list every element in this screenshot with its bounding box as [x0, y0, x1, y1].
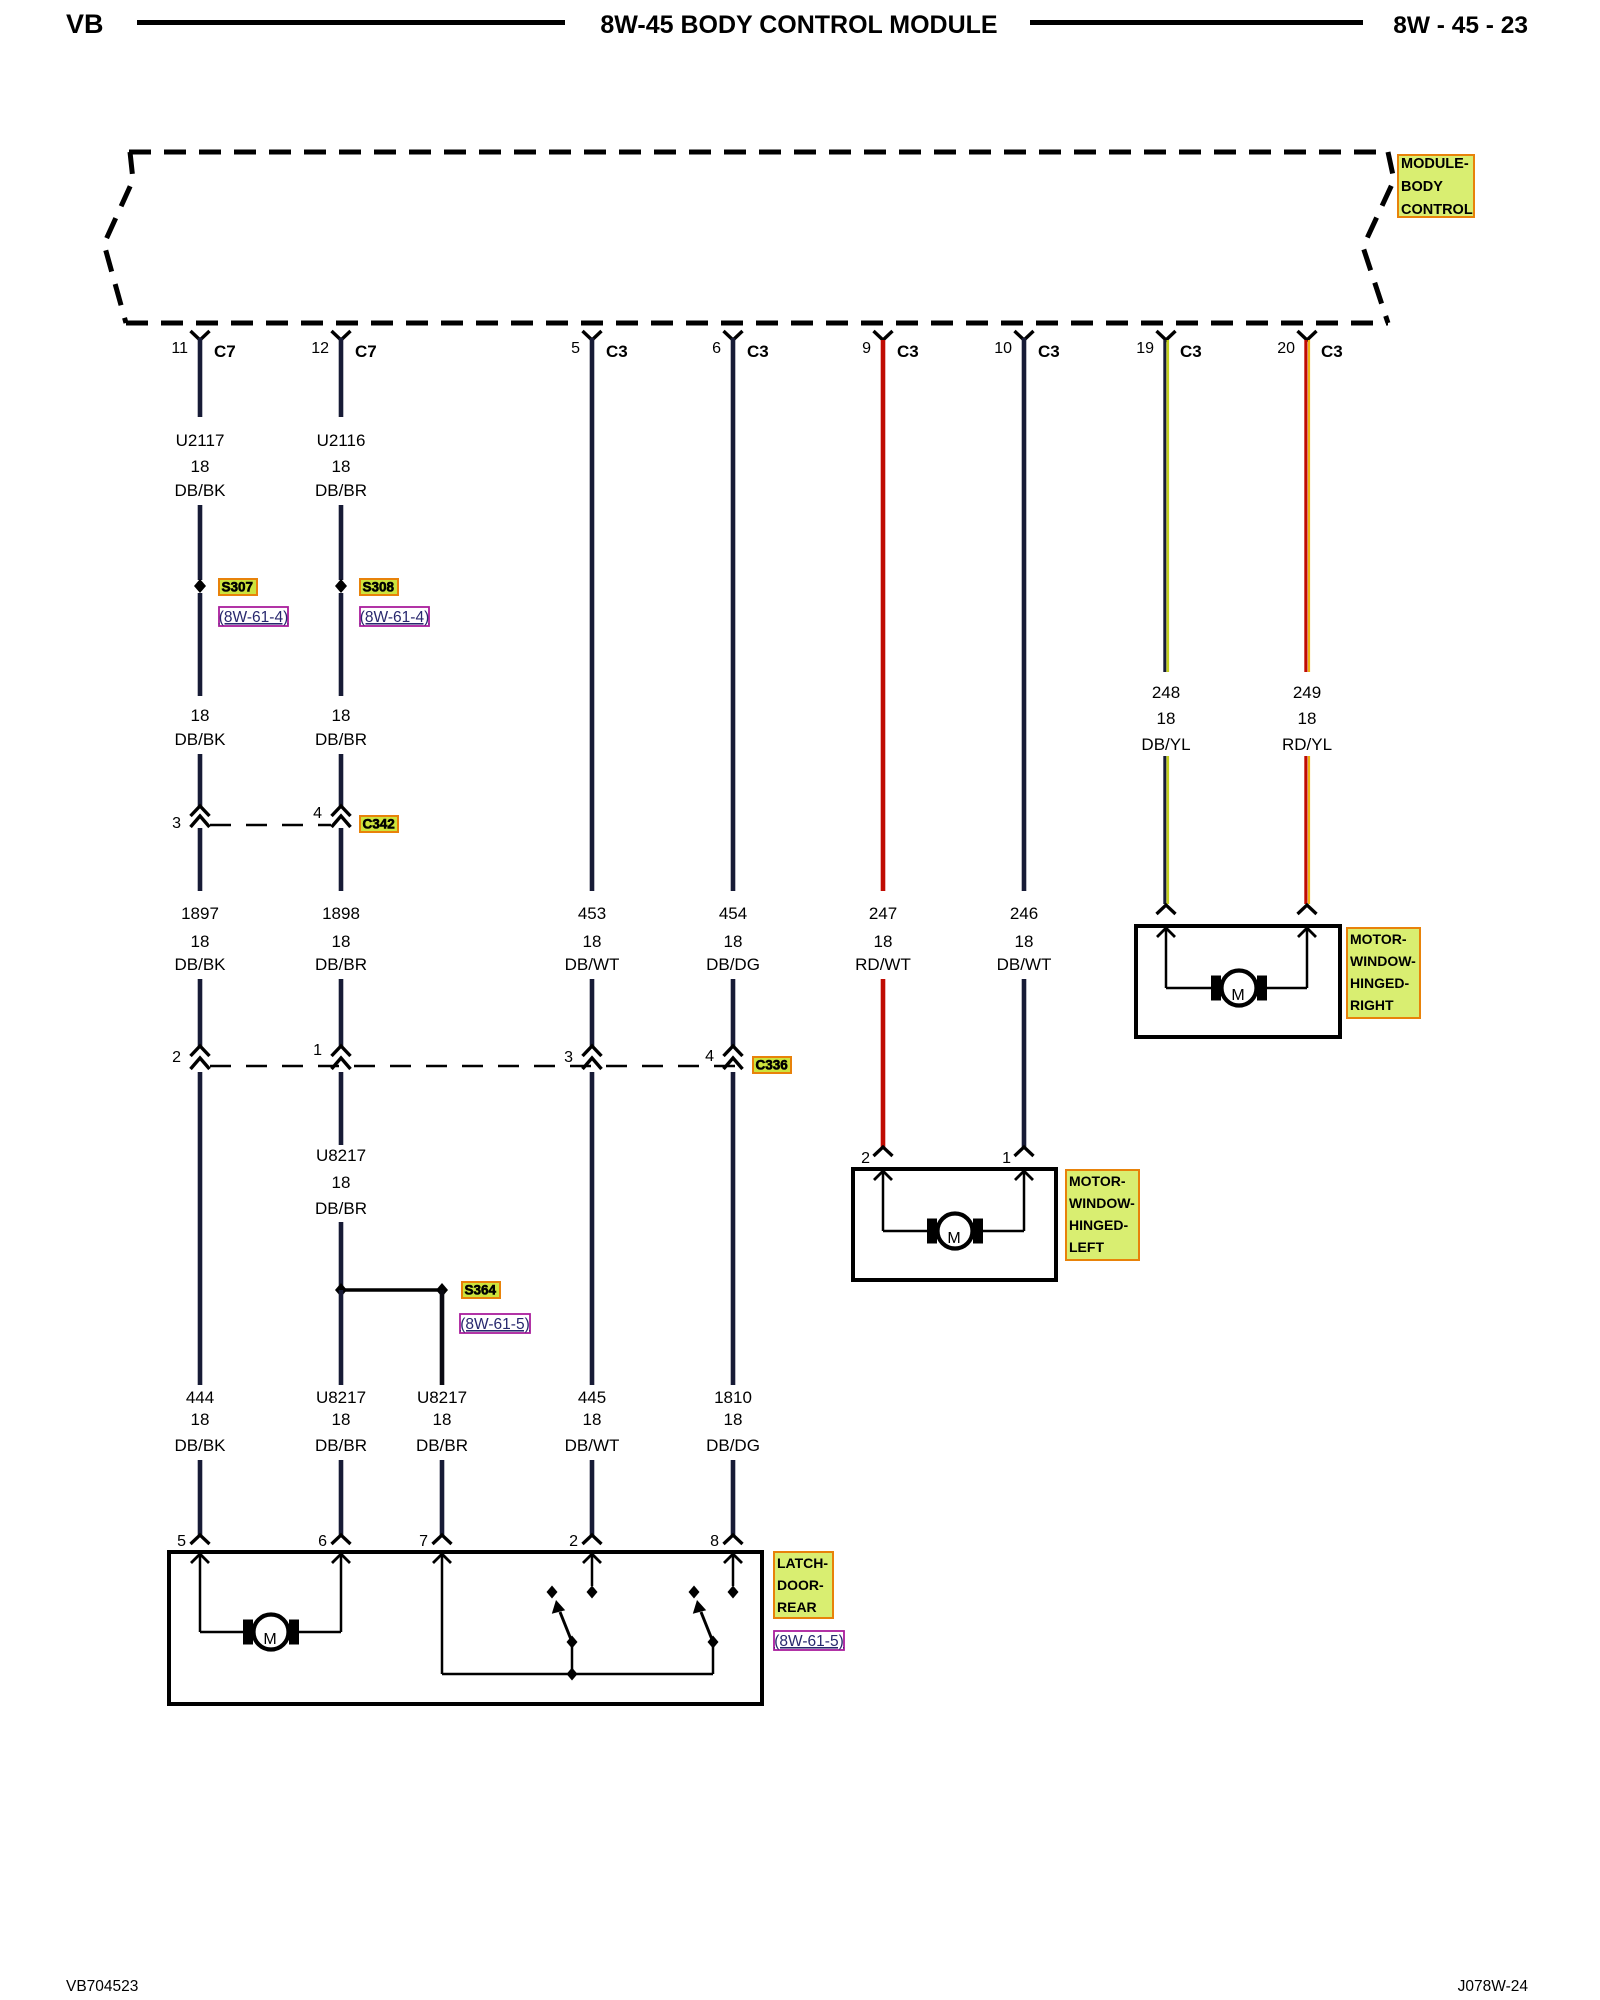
- svg-text:2: 2: [172, 1049, 181, 1066]
- svg-text:C342: C342: [363, 817, 395, 832]
- svg-text:3: 3: [172, 815, 181, 832]
- svg-text:C3: C3: [1321, 342, 1343, 361]
- svg-text:HINGED-: HINGED-: [1069, 1217, 1128, 1233]
- connector C336 pin 4 chevrons: [724, 1046, 743, 1056]
- wire segment to left window motor pin 1: [1022, 979, 1027, 1147]
- svg-text:(8W-61-5): (8W-61-5): [460, 1316, 529, 1333]
- svg-text:S308: S308: [363, 580, 395, 595]
- wire 1898 18 DB/BR segment below C342: [339, 828, 344, 891]
- latch switch SW2 fixed contact: [728, 1586, 739, 1599]
- latch switch SW2 pivot lead: [712, 1642, 715, 1674]
- svg-text:C3: C3: [897, 342, 919, 361]
- latch switch SW1 throw contact: [547, 1586, 558, 1599]
- svg-text:18: 18: [583, 932, 602, 951]
- wire U2116 18 DB/BR segment from module pin 12: [339, 338, 344, 417]
- wire 248 18 DB/YL upper segment from module pin 19: [1163, 340, 1166, 672]
- svg-text:18: 18: [332, 932, 351, 951]
- svg-text:DB/BR: DB/BR: [315, 1436, 367, 1455]
- svg-text:DB/YL: DB/YL: [1141, 735, 1190, 754]
- wire 246 18 DB/WT segment from module pin 10: [1022, 338, 1027, 891]
- svg-text:20: 20: [1277, 340, 1295, 357]
- svg-text:C3: C3: [1038, 342, 1060, 361]
- svg-text:(8W-61-4): (8W-61-4): [219, 609, 288, 626]
- svg-text:M: M: [263, 1631, 276, 1648]
- latch switch SW1 pivot: [567, 1636, 578, 1649]
- svg-text:(8W-61-4): (8W-61-4): [360, 609, 429, 626]
- svg-text:1898: 1898: [322, 904, 360, 923]
- latch pin 5 terminal arrow: [191, 1554, 209, 1563]
- svg-text:U8217: U8217: [316, 1388, 366, 1407]
- svg-text:6: 6: [712, 340, 721, 357]
- label C336: [753, 1057, 791, 1073]
- connector C336 pin 1 chevrons: [332, 1046, 351, 1056]
- svg-text:DB/DG: DB/DG: [706, 1436, 760, 1455]
- svg-text:8: 8: [710, 1533, 719, 1550]
- svg-text:DB/BR: DB/BR: [315, 955, 367, 974]
- left window motor pin 1 entry fork: [1015, 1147, 1034, 1156]
- latch pin 7 terminal arrow: [433, 1554, 451, 1563]
- svg-text:U2116: U2116: [317, 431, 366, 450]
- label S307: [219, 579, 257, 595]
- splice S364 right junction: [436, 1283, 448, 1297]
- wire segment to latch pin 8: [731, 1460, 736, 1535]
- latch common bus wire: [442, 1673, 713, 1676]
- latch pin 8 entry fork: [724, 1535, 743, 1544]
- svg-text:C3: C3: [1180, 342, 1202, 361]
- svg-text:C3: C3: [747, 342, 769, 361]
- link 8W-61-5 for latch: [774, 1631, 844, 1650]
- module pin 20 connector C3 fork: [1298, 331, 1317, 340]
- svg-text:445: 445: [578, 1388, 606, 1407]
- motor M2 window hinged left box: [853, 1169, 1056, 1280]
- motor M2 symbol: [927, 1219, 937, 1244]
- svg-text:MOTOR-: MOTOR-: [1350, 931, 1407, 947]
- latch pin 7 entry fork: [433, 1535, 452, 1544]
- wire U2117 18 DB/BK segment from module pin 11: [198, 338, 203, 417]
- splice S364 left junction: [335, 1283, 347, 1297]
- svg-text:19: 19: [1136, 340, 1154, 357]
- svg-text:U8217: U8217: [417, 1388, 467, 1407]
- latch pin 6 entry fork: [332, 1535, 351, 1544]
- latch switch SW2 throw contact: [689, 1586, 700, 1599]
- latch rear door box: [169, 1552, 762, 1704]
- svg-text:18: 18: [1015, 932, 1034, 951]
- module U1 dashed outline right break: [1363, 152, 1394, 323]
- svg-text:DB/WT: DB/WT: [997, 955, 1052, 974]
- svg-text:VB704523: VB704523: [66, 1978, 138, 1995]
- splice S307: [194, 579, 206, 593]
- latch pin 2 terminal arrow: [583, 1554, 601, 1563]
- module pin 10 connector C3 fork: [1015, 331, 1034, 340]
- right window motor left entry fork: [1157, 905, 1176, 914]
- svg-text:249: 249: [1293, 683, 1321, 702]
- latch switch SW1 blade: [560, 1612, 572, 1642]
- svg-text:12: 12: [311, 340, 329, 357]
- svg-text:2: 2: [569, 1533, 578, 1550]
- latch switch SW2 blade: [701, 1612, 713, 1642]
- module U1 dashed outline bottom: [126, 321, 1388, 326]
- label S308: [360, 579, 398, 595]
- wire U8217 18 DB/BR branch from S364: [440, 1290, 445, 1385]
- svg-text:18: 18: [1298, 709, 1317, 728]
- svg-text:DB/BR: DB/BR: [315, 1199, 367, 1218]
- wire segment to connector C336 pin 3: [590, 979, 595, 1046]
- wire segment to splice S307: [198, 505, 203, 580]
- right window motor right entry fork: [1298, 905, 1317, 914]
- svg-text:1810: 1810: [714, 1388, 752, 1407]
- wire segment to connector C342 pin 4: [339, 754, 344, 806]
- wire segment to latch pin 7: [440, 1460, 445, 1535]
- connector C336 pin 2 chevrons: [191, 1046, 210, 1056]
- svg-text:WINDOW-: WINDOW-: [1350, 953, 1416, 969]
- wire segment to latch pin 6: [339, 1460, 344, 1535]
- label MOTOR-WINDOW-HINGED-RIGHT: [1347, 928, 1420, 1018]
- svg-text:DB/BR: DB/BR: [315, 730, 367, 749]
- svg-text:2: 2: [861, 1150, 870, 1167]
- svg-text:DB/BR: DB/BR: [315, 481, 367, 500]
- svg-text:6: 6: [318, 1533, 327, 1550]
- motor M2 left terminal arrow: [874, 1171, 892, 1180]
- module pin 5 connector C3 fork: [583, 331, 602, 340]
- svg-text:DB/BR: DB/BR: [416, 1436, 468, 1455]
- motor M1 window hinged right box: [1136, 926, 1340, 1037]
- svg-text:LATCH-: LATCH-: [777, 1555, 828, 1571]
- motor M2 right terminal arrow: [1015, 1171, 1033, 1180]
- label MODULE-BODY CONTROL: [1398, 155, 1474, 217]
- wire segment to connector C336 pin 2: [198, 979, 203, 1046]
- wire 247 18 RD/WT segment from module pin 9: [881, 340, 886, 891]
- module pin 6 connector C3 fork: [724, 331, 743, 340]
- svg-text:11: 11: [171, 340, 188, 357]
- svg-text:5: 5: [177, 1533, 186, 1550]
- wire segment to connector C336 pin 4: [731, 979, 736, 1046]
- svg-text:18: 18: [191, 706, 210, 725]
- left window motor pin 2 entry fork: [874, 1147, 893, 1156]
- svg-text:444: 444: [186, 1388, 214, 1407]
- motor M1 left lead wire: [1166, 987, 1211, 990]
- latch switch SW1 pivot lead: [571, 1642, 574, 1674]
- wire segment to latch pin 2: [590, 1460, 595, 1535]
- svg-text:1897: 1897: [181, 904, 219, 923]
- svg-text:U8217: U8217: [316, 1146, 366, 1165]
- module U1 dashed outline left break: [104, 152, 133, 323]
- svg-text:4: 4: [705, 1048, 714, 1065]
- wire segment below splice S308: [339, 593, 344, 696]
- svg-text:454: 454: [719, 904, 747, 923]
- svg-text:DB/BK: DB/BK: [174, 481, 226, 500]
- svg-text:RIGHT: RIGHT: [1350, 997, 1394, 1013]
- svg-text:DB/BK: DB/BK: [174, 955, 226, 974]
- splice S364 jumper wire: [341, 1288, 442, 1292]
- module pin 12 connector C7 fork: [332, 331, 351, 340]
- svg-text:RD/WT: RD/WT: [855, 955, 911, 974]
- label LATCH-DOOR-REAR: [774, 1552, 833, 1618]
- wire 445 18 DB/WT segment below C336: [590, 1072, 595, 1385]
- header rule left: [137, 20, 565, 25]
- svg-text:18: 18: [724, 1410, 743, 1429]
- svg-text:9: 9: [862, 340, 871, 357]
- wire 1810 18 DB/DG segment below C336: [731, 1072, 736, 1385]
- connector C342 dashed joint line: [210, 824, 331, 827]
- svg-text:8W - 45 - 23: 8W - 45 - 23: [1393, 12, 1528, 39]
- svg-text:DB/WT: DB/WT: [565, 955, 620, 974]
- svg-text:LEFT: LEFT: [1069, 1239, 1104, 1255]
- latch pin 2 entry fork: [583, 1535, 602, 1544]
- svg-text:18: 18: [583, 1410, 602, 1429]
- svg-text:247: 247: [869, 904, 897, 923]
- latch motor right lead wire: [299, 1631, 341, 1634]
- motor M2 right lead wire: [983, 1230, 1024, 1233]
- svg-text:C3: C3: [606, 342, 628, 361]
- wire 444 18 DB/BK segment below C336: [198, 1072, 203, 1385]
- module pin 9 connector C3 fork: [874, 331, 893, 340]
- svg-text:RD/YL: RD/YL: [1282, 735, 1332, 754]
- svg-text:U2117: U2117: [176, 431, 225, 450]
- svg-text:J078W-24: J078W-24: [1458, 1978, 1529, 1995]
- wire U8217 segment below splice S364: [339, 1290, 344, 1385]
- latch motor M3 symbol: [243, 1620, 253, 1645]
- svg-text:REAR: REAR: [777, 1599, 817, 1615]
- splice S308: [335, 579, 347, 593]
- svg-text:18: 18: [332, 706, 351, 725]
- svg-text:DB/DG: DB/DG: [706, 955, 760, 974]
- motor M1 symbol: [1211, 976, 1221, 1001]
- svg-text:18: 18: [332, 1410, 351, 1429]
- svg-text:S364: S364: [465, 1283, 497, 1298]
- svg-text:C7: C7: [355, 342, 377, 361]
- svg-text:M: M: [947, 1230, 960, 1247]
- wire segment to splice S308: [339, 505, 344, 580]
- connector C336 dashed joint line: [210, 1065, 748, 1068]
- svg-text:18: 18: [874, 932, 893, 951]
- svg-text:1: 1: [313, 1042, 322, 1059]
- svg-text:M: M: [1231, 987, 1244, 1004]
- svg-text:8W-45 BODY CONTROL MODULE: 8W-45 BODY CONTROL MODULE: [600, 11, 997, 39]
- svg-text:246: 246: [1010, 904, 1038, 923]
- wire 454 18 DB/DG segment from module pin 6: [731, 338, 736, 891]
- wire segment to latch pin 5: [198, 1460, 203, 1535]
- svg-text:5: 5: [571, 340, 580, 357]
- svg-text:18: 18: [1157, 709, 1176, 728]
- svg-text:(8W-61-5): (8W-61-5): [774, 1633, 843, 1650]
- wire segment to connector C336 pin 1: [339, 979, 344, 1046]
- svg-text:C7: C7: [214, 342, 236, 361]
- latch bus junction: [567, 1668, 578, 1681]
- svg-text:18: 18: [191, 1410, 210, 1429]
- motor M2 left lead wire: [883, 1230, 927, 1233]
- label C342: [360, 816, 398, 832]
- connector C342 pin 3 chevrons: [191, 806, 210, 816]
- svg-text:MOTOR-: MOTOR-: [1069, 1173, 1126, 1189]
- motor M1 right lead wire: [1267, 987, 1307, 990]
- motor M1 left terminal arrow: [1157, 928, 1175, 937]
- connector C336 pin 3 chevrons: [583, 1046, 602, 1056]
- latch pin 8 terminal arrow: [724, 1554, 742, 1563]
- wire segment to right window motor: [1163, 756, 1166, 904]
- svg-text:453: 453: [578, 904, 606, 923]
- wire segment to right window motor: [1304, 756, 1307, 904]
- svg-text:10: 10: [994, 340, 1012, 357]
- svg-text:18: 18: [433, 1410, 452, 1429]
- svg-text:7: 7: [419, 1533, 428, 1550]
- latch pin 6 terminal arrow: [332, 1554, 350, 1563]
- svg-text:18: 18: [724, 932, 743, 951]
- module pin 19 connector C3 fork: [1157, 331, 1176, 340]
- svg-text:18: 18: [332, 457, 351, 476]
- svg-text:18: 18: [191, 932, 210, 951]
- svg-text:18: 18: [191, 457, 210, 476]
- link 8W-61-4 for S307: [219, 607, 288, 626]
- header rule right: [1030, 20, 1363, 25]
- svg-text:CONTROL: CONTROL: [1401, 202, 1473, 218]
- svg-text:18: 18: [332, 1173, 351, 1192]
- motor M1 right terminal arrow: [1298, 928, 1316, 937]
- svg-text:DB/BK: DB/BK: [174, 1436, 226, 1455]
- module U1 body control module dashed outline top: [129, 150, 1388, 155]
- svg-text:DOOR-: DOOR-: [777, 1577, 824, 1593]
- svg-text:C336: C336: [756, 1058, 789, 1073]
- label S364: [462, 1282, 500, 1298]
- svg-text:3: 3: [564, 1049, 573, 1066]
- svg-text:4: 4: [313, 805, 322, 822]
- svg-text:VB: VB: [66, 9, 104, 39]
- link 8W-61-5 for S364: [460, 1314, 530, 1333]
- svg-text:MODULE-: MODULE-: [1401, 156, 1469, 172]
- svg-text:DB/WT: DB/WT: [565, 1436, 620, 1455]
- svg-text:HINGED-: HINGED-: [1350, 975, 1409, 991]
- svg-text:248: 248: [1152, 683, 1180, 702]
- latch switch SW2 pivot: [708, 1636, 719, 1649]
- wire 1897 18 DB/BK segment below C342: [198, 828, 203, 891]
- svg-text:DB/BK: DB/BK: [174, 730, 226, 749]
- connector C342 pin 4 chevrons: [332, 806, 351, 816]
- link 8W-61-4 for S308: [360, 607, 429, 626]
- module pin 11 connector C7 fork: [191, 331, 210, 340]
- wire U8217 18 DB/BR segment below C336: [339, 1072, 344, 1145]
- wire segment below splice S307: [198, 593, 203, 696]
- wire segment to splice S364: [339, 1222, 344, 1290]
- label MOTOR-WINDOW-HINGED-LEFT: [1066, 1170, 1139, 1260]
- latch switch SW1 fixed contact: [587, 1586, 598, 1599]
- wire segment to connector C342 pin 3: [198, 754, 203, 806]
- svg-text:BODY: BODY: [1401, 179, 1443, 195]
- svg-text:S307: S307: [222, 580, 254, 595]
- wire segment to left window motor pin 2: [881, 979, 886, 1147]
- latch pin 5 entry fork: [191, 1535, 210, 1544]
- latch motor left lead wire: [200, 1631, 243, 1634]
- wire 453 18 DB/WT segment from module pin 5: [590, 338, 595, 891]
- wire 249 18 RD/YL upper segment from module pin 20: [1304, 340, 1307, 672]
- svg-text:1: 1: [1002, 1150, 1011, 1167]
- svg-text:WINDOW-: WINDOW-: [1069, 1195, 1135, 1211]
